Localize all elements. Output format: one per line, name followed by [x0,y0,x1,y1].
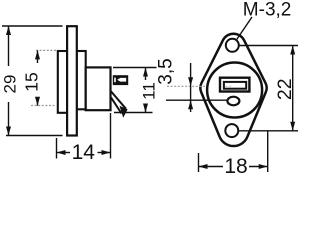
front view: top mounting hole [226,39,239,52]
side view: flange plate [67,26,77,135]
svg-text:3,5: 3,5 [156,58,177,84]
side view: upper solder pin [113,75,128,85]
svg-text:18: 18 [224,155,247,176]
front view: pin hole ellipse [227,97,239,106]
side view: rear boss rectangle [77,51,86,109]
dimension 18 [199,131,268,178]
front view: barrel circle [207,63,262,118]
svg-text:22: 22 [274,78,296,100]
front view: bottom mounting hole [225,124,238,137]
dimension 3,5 [156,58,228,112]
dimension 29 [1,26,63,136]
side view: jack body [86,67,111,110]
dimension 15 [22,50,57,105]
side view: diagonal solder lug [111,91,128,117]
dimension 11 [113,68,158,113]
dimension 14 [57,113,111,164]
side view: front boss rectangle [58,51,68,113]
front view: flange outline [200,34,266,146]
dimension 22 [239,46,298,131]
centre line faint continuation inside jack opening [226,85,233,87]
front view: jack opening inner rectangle [224,82,246,89]
front view: jack opening outer rectangle [220,78,249,92]
svg-text:29: 29 [1,75,20,94]
front view: centre line grey [167,85,233,87]
svg-text:14: 14 [72,141,96,164]
svg-text:15: 15 [22,72,42,91]
label M-3,2 with leader [236,0,291,41]
svg-text:M-3,2: M-3,2 [243,0,292,21]
